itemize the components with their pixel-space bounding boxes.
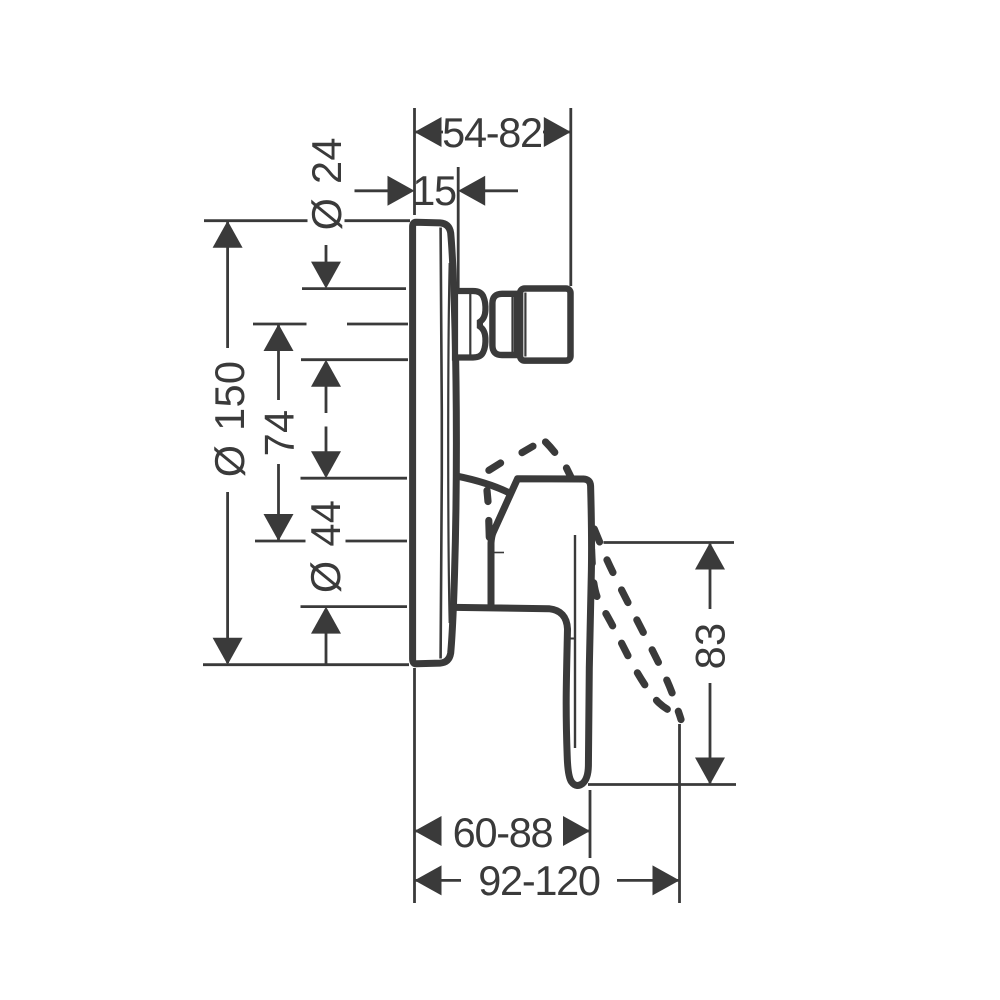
tick 83 top — [604, 541, 735, 544]
dashed handle upper edge: descending run — [543, 440, 681, 720]
tick lever tip — [588, 783, 736, 786]
arrowhead dia150 bottom — [213, 638, 243, 665]
arrowhead 83 top — [695, 543, 725, 570]
dashed handle upper edge: rising dash 2 — [522, 446, 533, 452]
arrowhead 60-88 left — [415, 816, 442, 846]
knob middle ring — [492, 294, 517, 355]
dimension line 60-88 — [415, 830, 591, 833]
tick plate top — [204, 219, 410, 222]
svg-text:54-82: 54-82 — [442, 109, 542, 156]
arrowhead 74 top — [264, 324, 294, 351]
extension line 92-120 right — [678, 724, 681, 903]
arrowhead 15 left — [388, 176, 415, 206]
knob ring crease — [511, 297, 513, 352]
knob pedestal crease — [469, 294, 471, 355]
extension line 15 right — [457, 167, 460, 288]
escutcheon plate outline (side view) — [413, 222, 457, 663]
lever handle fill — [491, 479, 592, 786]
dimension line 74 — [277, 325, 280, 540]
dashed handle lower edge — [591, 520, 672, 712]
plate front-face crease line — [441, 228, 442, 659]
arrowhead dia44 down — [311, 451, 341, 478]
dimension line dia44 upper stem — [325, 427, 328, 477]
extension line bottom left — [413, 668, 416, 903]
handle base dome arc — [456, 476, 511, 494]
lever small bridge tick — [569, 638, 576, 640]
arrowhead 92-120 left — [415, 865, 442, 895]
svg-text:Ø 150: Ø 150 — [206, 361, 253, 478]
arrowhead 92-120 right — [653, 865, 680, 895]
tick plate bottom — [203, 663, 409, 666]
dimension line dia24 upper stem — [325, 245, 328, 266]
svg-text:Ø 24: Ø 24 — [303, 137, 350, 230]
tick knob bottom — [301, 358, 408, 361]
tick dia44 top — [301, 477, 408, 480]
arrowhead 54-82 right — [544, 117, 571, 147]
dimension line 92-120 — [415, 879, 680, 882]
svg-text:15: 15 — [412, 167, 456, 214]
arrowhead dia150 top — [213, 221, 243, 248]
dashed handle upper edge: base dash 1 — [485, 521, 493, 538]
dimension tail 15 right — [483, 189, 518, 192]
dimension line 54-82 — [415, 131, 571, 134]
svg-text:92-120: 92-120 — [478, 857, 600, 904]
arrowhead 54-82 left — [415, 117, 442, 147]
plate edge crease line — [448, 263, 450, 623]
tick knob center — [253, 323, 408, 326]
arrowhead 60-88 right — [563, 816, 590, 846]
arrowhead dia24 up — [311, 360, 341, 387]
arrowhead 83 bottom — [695, 758, 725, 785]
dashed handle upper edge: base dash 2 — [487, 491, 488, 502]
arrowhead 74 bottom — [264, 514, 294, 541]
svg-text:60-88: 60-88 — [453, 809, 553, 856]
extension line 54-82 left — [413, 108, 416, 215]
extension line 60-88 right — [589, 790, 592, 858]
tick handle center — [255, 540, 407, 543]
tick dia44 bottom — [301, 605, 408, 608]
dimension tail 15 left — [355, 189, 391, 192]
svg-text:83: 83 — [687, 623, 734, 670]
dimension line 83 — [709, 544, 712, 783]
arrowhead dia44 up — [311, 607, 341, 634]
knob end cap — [520, 289, 570, 361]
lever handle outline — [455, 479, 592, 786]
extension line 54-82 right — [569, 108, 572, 286]
svg-text:74: 74 — [256, 410, 303, 457]
dimension line dia150 — [226, 222, 229, 663]
knob cap crease — [524, 293, 526, 357]
handle center small tick — [491, 552, 505, 554]
dimension line dia24 lower stem — [325, 362, 328, 413]
tick knob top — [302, 287, 406, 290]
knob pedestal — [455, 291, 485, 358]
dimension line dia44 lower stem — [325, 609, 328, 664]
svg-text:Ø 44: Ø 44 — [302, 500, 349, 593]
lever crease line — [574, 535, 576, 748]
arrowhead dia24 down — [311, 262, 341, 289]
dashed handle upper edge: rising dash 1 — [489, 463, 501, 470]
arrowhead 15 right — [458, 176, 485, 206]
